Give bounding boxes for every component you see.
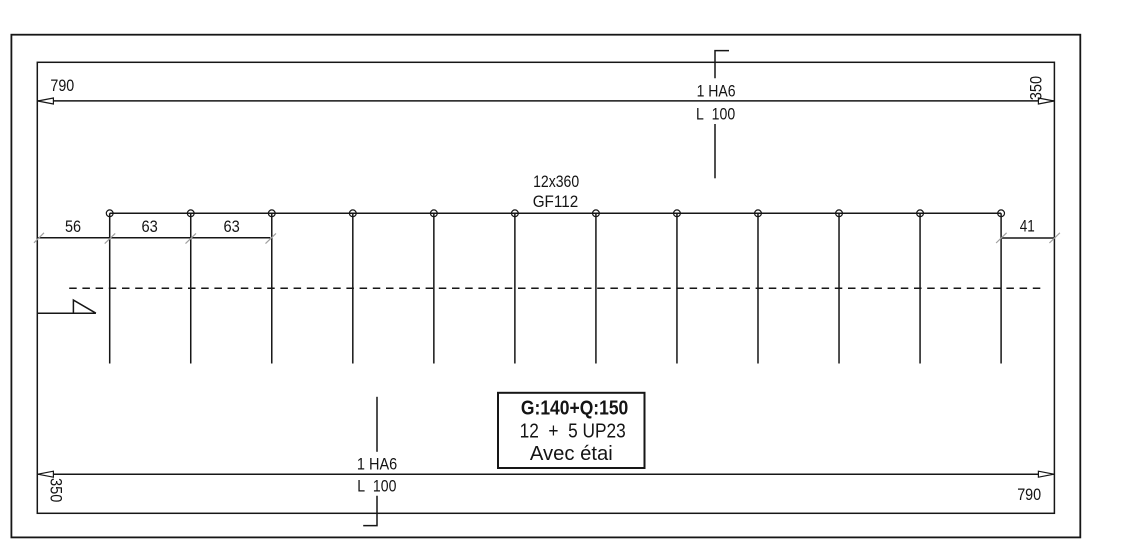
svg-text:1 HA6: 1 HA6 [357,456,397,474]
svg-text:Avec étai: Avec étai [530,443,613,465]
top leader hook [715,51,729,79]
svg-text:56: 56 [65,218,81,236]
node circle 3 [268,210,275,217]
bottom leader upper segment [376,397,378,452]
bottom-right arrow [1038,471,1054,477]
hanger drop line 8 [676,213,678,363]
node circle 9 [755,210,762,217]
hanger drop line 10 [838,213,840,363]
top-right arrow [1038,98,1054,104]
bottom-left arrow [38,471,54,477]
svg-text:1 HA6: 1 HA6 [697,83,736,101]
svg-text:12x360: 12x360 [533,173,579,191]
svg-text:G:140+Q:150: G:140+Q:150 [521,397,628,419]
top dimension line [37,100,1054,102]
top leader lower segment [714,124,716,178]
dashed axis line [69,287,1045,289]
bottom leader hook [363,496,377,526]
slab outline rectangle [37,62,1054,513]
svg-text:63: 63 [224,218,240,236]
hanger drop line 5 [433,213,435,363]
svg-text:790: 790 [1017,486,1041,504]
tick at slab left edge [34,233,44,243]
right dimension line 41 [1001,237,1054,239]
hanger drop line 3 [271,213,273,363]
hanger drop line 7 [595,213,597,363]
top-left arrow [38,98,54,104]
tick at node 12 [996,233,1007,243]
hanger drop line 1 [109,213,111,363]
tick at node 1 [105,233,116,243]
hanger drop line 11 [919,213,921,363]
svg-text:12 + 5 UP23: 12 + 5 UP23 [520,421,626,443]
svg-text:790: 790 [50,77,74,95]
svg-text:350: 350 [1028,76,1046,100]
svg-text:GF112: GF112 [533,193,579,211]
node circle 12 [998,210,1005,217]
left dimension chain line [37,237,270,239]
node circle 11 [917,210,924,217]
tick at node 2 [186,233,197,243]
node circle 4 [349,210,356,217]
tick at node 3 [266,233,277,243]
hanger drop line 4 [352,213,354,363]
node circle 7 [593,210,600,217]
bottom dimension line [37,473,1054,475]
node circle 1 [106,210,113,217]
hanger drop line 12 [1000,213,1002,363]
node circle 10 [836,210,843,217]
support flag line [37,312,96,314]
node circle 2 [187,210,194,217]
hanger drop line 2 [190,213,192,363]
hanger drop line 6 [514,213,516,363]
svg-text:41: 41 [1020,218,1035,236]
title box [498,393,645,468]
tick at slab right edge [1049,233,1060,243]
hanger drop line 9 [757,213,759,363]
support flag triangle [73,300,96,313]
svg-text:L 100: L 100 [696,106,735,124]
svg-text:63: 63 [142,218,158,236]
svg-text:L 100: L 100 [357,478,396,496]
svg-text:350: 350 [47,478,65,502]
node circle 5 [430,210,437,217]
node circle 8 [674,210,681,217]
node circle 6 [511,210,518,217]
top chord line [110,212,1001,214]
